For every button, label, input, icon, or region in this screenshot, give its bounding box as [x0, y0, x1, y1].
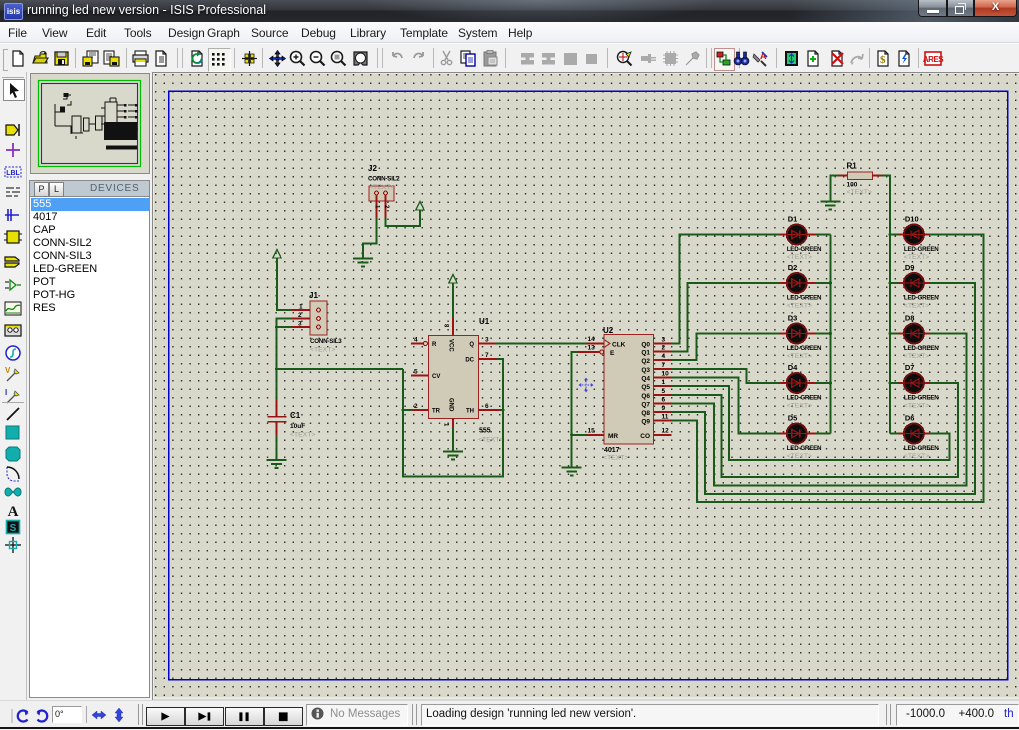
svg-text:13: 13	[588, 345, 596, 352]
svg-text:$: $	[880, 54, 886, 66]
svg-text:D4: D4	[788, 363, 798, 372]
svg-text:Q8: Q8	[641, 410, 650, 417]
svg-text:R: R	[432, 342, 437, 348]
svg-text:<TEXT>: <TEXT>	[904, 254, 929, 261]
svg-text:D5: D5	[788, 414, 798, 423]
svg-text:2: 2	[298, 312, 302, 319]
svg-text:LED-GREEN: LED-GREEN	[787, 246, 822, 253]
svg-text:LBL: LBL	[6, 170, 20, 177]
svg-text:5: 5	[662, 388, 666, 395]
svg-text:LED-GREEN: LED-GREEN	[787, 445, 822, 452]
svg-text:Q0: Q0	[641, 342, 650, 349]
svg-text:1: 1	[662, 379, 666, 386]
svg-text:100: 100	[847, 182, 858, 189]
svg-text:I: I	[5, 388, 7, 397]
svg-text:<TEXT>: <TEXT>	[787, 303, 812, 310]
svg-text:2: 2	[662, 345, 666, 352]
svg-text:S: S	[10, 523, 17, 534]
svg-text:14: 14	[588, 336, 596, 343]
svg-text:D10: D10	[905, 215, 919, 224]
svg-text:D2: D2	[788, 263, 798, 272]
svg-text:10uF: 10uF	[290, 423, 305, 430]
svg-text:<TEXT>: <TEXT>	[787, 254, 812, 261]
svg-text:D6: D6	[905, 414, 915, 423]
svg-text:CV: CV	[432, 374, 440, 380]
svg-text:3: 3	[662, 337, 666, 344]
svg-text:D8: D8	[905, 314, 915, 323]
svg-text:9: 9	[662, 405, 666, 412]
svg-text:TR: TR	[432, 409, 441, 415]
svg-text:DC: DC	[465, 358, 474, 364]
svg-text:Q6: Q6	[641, 393, 650, 400]
svg-text:U1: U1	[479, 317, 490, 326]
svg-text:MR: MR	[608, 433, 618, 440]
svg-text:<TEXT>: <TEXT>	[310, 347, 335, 354]
svg-text:2: 2	[414, 403, 418, 410]
svg-text:Q1: Q1	[641, 350, 650, 357]
svg-text:GND: GND	[448, 398, 454, 412]
svg-text:12: 12	[662, 428, 670, 435]
svg-text:4017: 4017	[604, 447, 620, 454]
svg-text:D3: D3	[788, 314, 798, 323]
svg-text:LED-GREEN: LED-GREEN	[904, 295, 939, 302]
svg-text:555: 555	[479, 428, 491, 435]
svg-text:R1: R1	[847, 162, 858, 171]
svg-text:Q: Q	[469, 342, 474, 348]
svg-text:3: 3	[298, 321, 302, 328]
svg-text:3: 3	[485, 337, 489, 344]
svg-text:LED-GREEN: LED-GREEN	[787, 345, 822, 352]
svg-text:CO: CO	[640, 433, 650, 440]
svg-text:<TEXT>: <TEXT>	[787, 403, 812, 410]
svg-text:Q3: Q3	[641, 367, 650, 374]
svg-text:10: 10	[662, 371, 670, 378]
svg-text:<TEXT>: <TEXT>	[603, 455, 628, 462]
svg-text:LED-GREEN: LED-GREEN	[904, 445, 939, 452]
svg-text:Q5: Q5	[641, 384, 650, 391]
svg-text:VCC: VCC	[448, 339, 454, 352]
svg-text:4: 4	[662, 353, 666, 360]
svg-text:<TEXT>: <TEXT>	[904, 353, 929, 360]
svg-text:LED-GREEN: LED-GREEN	[787, 295, 822, 302]
svg-text:J1: J1	[309, 291, 318, 300]
svg-text:LED-GREEN: LED-GREEN	[904, 246, 939, 253]
svg-text:<TEXT>: <TEXT>	[904, 303, 929, 310]
svg-text:C1: C1	[290, 411, 301, 420]
svg-text:CLK: CLK	[612, 342, 626, 349]
svg-text:D1: D1	[788, 215, 798, 224]
svg-text:1: 1	[299, 304, 303, 311]
svg-text:7: 7	[662, 362, 666, 369]
svg-text:CONN-SIL3: CONN-SIL3	[310, 338, 342, 345]
svg-text:<TEXT>: <TEXT>	[787, 453, 812, 460]
svg-text:7: 7	[485, 352, 489, 359]
svg-text:5: 5	[414, 369, 418, 376]
svg-text:LED-GREEN: LED-GREEN	[787, 395, 822, 402]
svg-text:6: 6	[662, 396, 666, 403]
svg-text:Q2: Q2	[641, 358, 650, 365]
svg-text:D7: D7	[905, 363, 915, 372]
svg-text:<TEXT>: <TEXT>	[369, 184, 394, 191]
svg-text:<TEXT>: <TEXT>	[290, 432, 315, 439]
svg-text:Q4: Q4	[641, 376, 650, 383]
svg-text:Q7: Q7	[641, 401, 650, 408]
svg-text:<TEXT>: <TEXT>	[847, 189, 872, 196]
svg-text:D9: D9	[905, 263, 915, 272]
svg-text:15: 15	[588, 428, 596, 435]
svg-text:U2: U2	[603, 326, 614, 335]
svg-text:E: E	[610, 350, 615, 357]
svg-text:ARES: ARES	[923, 55, 944, 64]
svg-text:LED-GREEN: LED-GREEN	[904, 395, 939, 402]
svg-text:<TEXT>: <TEXT>	[478, 437, 503, 444]
svg-text:6: 6	[485, 403, 489, 410]
svg-text:11: 11	[662, 414, 669, 421]
svg-text:V: V	[5, 366, 11, 375]
svg-text:<TEXT>: <TEXT>	[904, 403, 929, 410]
svg-text:<TEXT>: <TEXT>	[787, 353, 812, 360]
svg-text:Q9: Q9	[641, 419, 650, 426]
svg-text:TH: TH	[466, 409, 474, 415]
svg-text:<TEXT>: <TEXT>	[904, 453, 929, 460]
svg-text:LED-GREEN: LED-GREEN	[904, 345, 939, 352]
svg-text:CONN-SIL2: CONN-SIL2	[368, 176, 400, 183]
svg-text:4: 4	[414, 337, 418, 344]
svg-text:J2: J2	[368, 164, 377, 173]
